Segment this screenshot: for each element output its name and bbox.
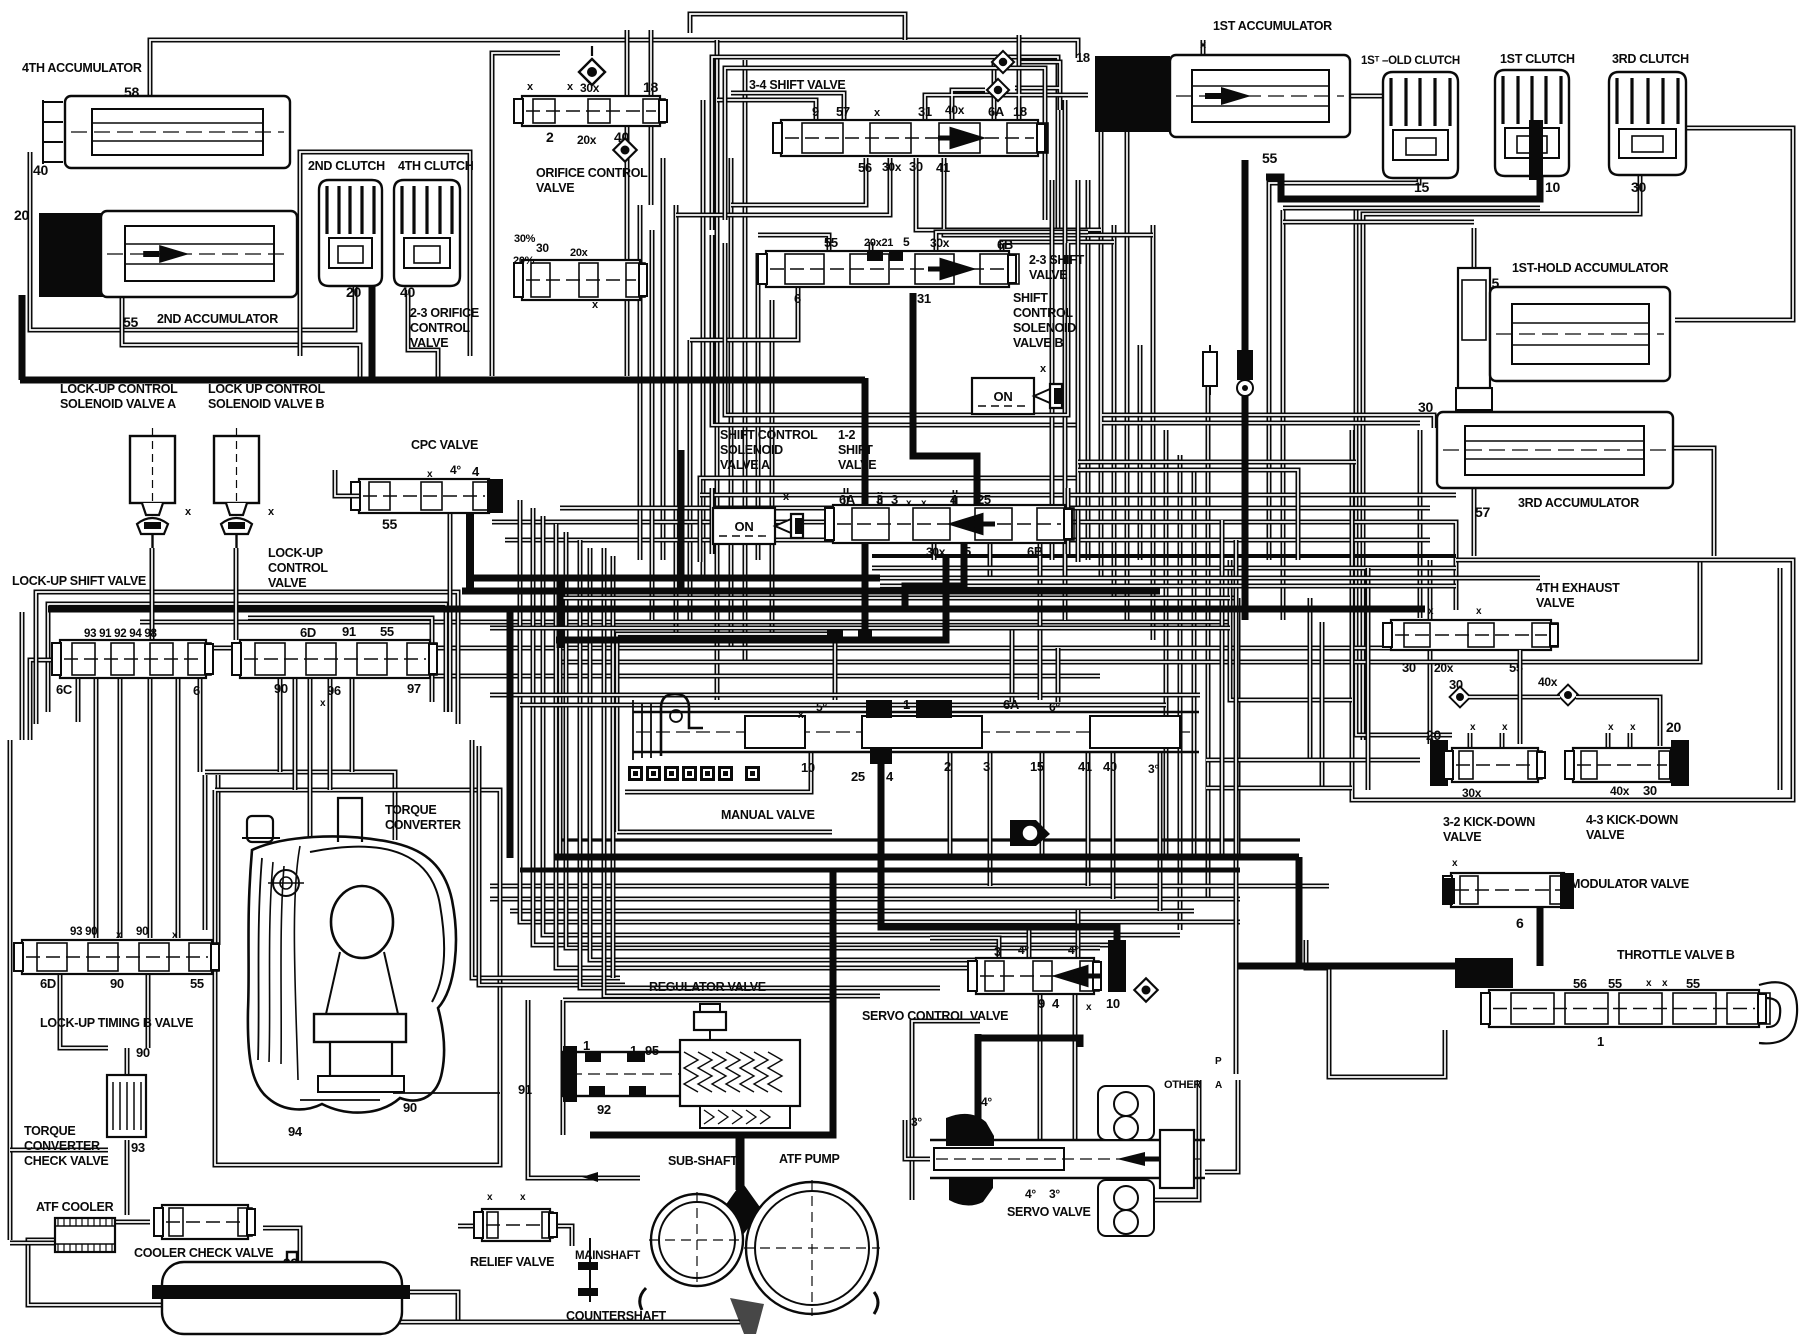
- svg-text:3: 3: [876, 492, 883, 507]
- clutch 4TH CLUTCH: [394, 180, 460, 286]
- wire staircase 4b: [580, 540, 940, 988]
- svg-text:3RD CLUTCH: 3RD CLUTCH: [1612, 52, 1689, 66]
- solenoid ON box B: [972, 378, 1062, 414]
- wire staircase 3: [566, 532, 1100, 948]
- clutch 1ST-HOLD CLUTCH: [1383, 72, 1458, 178]
- wire manual 3 down: [988, 752, 993, 886]
- svg-text:15: 15: [1414, 179, 1429, 195]
- black piston 1st accumulator: [1095, 56, 1170, 132]
- wire cpc 55 drop: [448, 514, 453, 712]
- black bumps on 2-3 spool: [867, 252, 883, 261]
- wire 2-3 valve box: [712, 235, 1078, 425]
- wire thick elbow x560: [557, 580, 564, 648]
- wire staircase 2: [543, 516, 1180, 935]
- svg-text:55: 55: [1608, 976, 1622, 991]
- wire servo to throttle box link: [1205, 1080, 1238, 1172]
- wire accumulator outer box: [30, 152, 355, 330]
- wire right riser m: [1220, 520, 1225, 860]
- wire thick band y870: [520, 868, 1240, 873]
- svg-text:3°: 3°: [1148, 762, 1159, 776]
- clutch 1ST CLUTCH: [1495, 70, 1569, 176]
- wire 2-3 top stubs: [758, 232, 1114, 251]
- wire mid riser k: [1050, 180, 1055, 560]
- wire orifice-valve left riser: [492, 53, 560, 376]
- wire 3rd accum right loop: [1673, 448, 1714, 556]
- wire 1st-hold accum drop: [1472, 410, 1477, 556]
- wire manual 6A up: [1010, 628, 1015, 702]
- svg-text:SHIFT: SHIFT: [838, 443, 873, 457]
- svg-text:93 90: 93 90: [70, 926, 97, 938]
- wire lockup control drops: [280, 678, 352, 838]
- sub-shaft arrow: [582, 1172, 598, 1182]
- svg-text:2ND ACCUMULATOR: 2ND ACCUMULATOR: [157, 312, 278, 326]
- svg-text:CONVERTER: CONVERTER: [24, 1139, 100, 1153]
- wire check40x link: [1576, 697, 1660, 746]
- wire right long riser 2: [1178, 455, 1183, 930]
- wire thick manual port4 drop: [881, 752, 1117, 962]
- wire solenoid A stem: [150, 548, 155, 640]
- wire band y578 right: [880, 576, 1540, 581]
- wire lockup control inner box: [248, 618, 432, 702]
- wire staircase 5: [611, 556, 616, 978]
- svg-text:6D: 6D: [40, 976, 56, 991]
- svg-text:55: 55: [1686, 976, 1700, 991]
- wire manual valve inner box: [617, 634, 832, 832]
- throttle hook right: [1759, 982, 1797, 1043]
- svg-text:CPC VALVE: CPC VALVE: [411, 438, 478, 452]
- wire manual valve outer box: [560, 598, 1238, 858]
- wire thick left piston drop: [19, 295, 26, 380]
- svg-text:4: 4: [1052, 996, 1060, 1011]
- wire thick 2-3 to 1-2: [913, 293, 977, 512]
- wire band y705: [520, 703, 1166, 708]
- svg-text:15: 15: [1030, 759, 1044, 774]
- svg-text:30: 30: [909, 159, 923, 174]
- svg-text:VALVE: VALVE: [410, 336, 448, 350]
- wire manual 6deg up: [1056, 648, 1061, 702]
- svg-text:VALVE: VALVE: [1029, 268, 1067, 282]
- check ball under orifice valve: [613, 138, 636, 161]
- svg-text:SERVO CONTROL VALVE: SERVO CONTROL VALVE: [862, 1009, 1008, 1023]
- wire thick servo 4deg drop: [975, 1034, 982, 1120]
- svg-text:CONTROL: CONTROL: [410, 321, 470, 335]
- wire check30 link: [1468, 695, 1560, 700]
- svg-text:20x21: 20x21: [864, 237, 893, 249]
- wire thick 1st clutch 10 elbow: [1266, 176, 1540, 199]
- black right end CPC: [487, 479, 503, 513]
- svg-text:SOLENOID: SOLENOID: [720, 443, 783, 457]
- check balls top right: [992, 51, 1014, 73]
- wire band below manual y899: [490, 897, 1240, 902]
- svg-text:REGULATOR VALVE: REGULATOR VALVE: [649, 980, 766, 994]
- svg-text:30x: 30x: [930, 236, 950, 250]
- wire right riser n: [1234, 540, 1239, 1074]
- svg-text:1: 1: [630, 1043, 637, 1058]
- svg-text:55: 55: [190, 976, 204, 991]
- wire thick band y591: [462, 588, 1160, 595]
- black end 3-2 kick-down: [1430, 740, 1448, 786]
- wire band below manual y886: [490, 884, 1329, 889]
- wire inner box 2-3: [725, 243, 1068, 415]
- wire thick modulator 6 drop: [1537, 905, 1544, 966]
- wire inner box 3-4: [725, 68, 1045, 220]
- wire solenoid B stem: [234, 548, 239, 640]
- svg-text:5: 5: [903, 235, 910, 249]
- svg-text:6A: 6A: [988, 104, 1005, 119]
- svg-text:6D: 6D: [300, 625, 316, 640]
- wire right bundle 4: [1125, 100, 1130, 620]
- valve MODULATOR body: [1443, 873, 1571, 907]
- svg-text:CONTROL: CONTROL: [1013, 306, 1073, 320]
- svg-text:x: x: [1608, 722, 1614, 733]
- svg-text:30%: 30%: [514, 233, 536, 245]
- wire kickdown top stubs: [1470, 733, 1630, 748]
- svg-text:56: 56: [1573, 976, 1587, 991]
- wire cpc left stub: [335, 470, 359, 496]
- wire mid riser j: [1038, 543, 1043, 700]
- svg-text:57: 57: [836, 104, 850, 119]
- svg-text:SOLENOID VALVE A: SOLENOID VALVE A: [60, 397, 176, 411]
- wire staircase 2b: [533, 508, 1120, 945]
- svg-text:x: x: [320, 698, 326, 709]
- wire manual 2 down: [948, 752, 953, 858]
- svg-text:LOCK UP CONTROL: LOCK UP CONTROL: [208, 382, 325, 396]
- svg-text:3: 3: [891, 492, 898, 507]
- wire sub-shaft line: [528, 1000, 640, 1178]
- wire tc bypass 2: [479, 746, 625, 985]
- wire 3-4 bottom stubs: [676, 158, 1153, 235]
- valve 1st-hold accumulator narrow part: [1456, 268, 1492, 410]
- wire thick main band y380: [20, 377, 865, 384]
- valve LOCK-UP CONTROL body: [232, 640, 437, 678]
- svg-text:3: 3: [983, 759, 990, 774]
- svg-text:x: x: [798, 710, 804, 721]
- wire left bottom border: [10, 1241, 55, 1246]
- junction square b: [858, 626, 872, 638]
- wire thick band y580: [466, 575, 880, 582]
- svg-text:x: x: [427, 469, 433, 480]
- wire band y495: [700, 493, 1456, 498]
- wire center riser g: [743, 60, 748, 660]
- svg-text:4°: 4°: [1025, 1187, 1036, 1201]
- wire right long riser 1: [1164, 430, 1169, 860]
- svg-text:93 91 92 94 98: 93 91 92 94 98: [84, 628, 157, 640]
- svg-text:LOCK-UP SHIFT VALVE: LOCK-UP SHIFT VALVE: [12, 574, 146, 588]
- svg-text:31: 31: [918, 104, 932, 119]
- wire manual 3deg down: [1158, 752, 1163, 911]
- wire tank right link: [401, 1292, 458, 1322]
- valve 4TH ACCUMULATOR body: [43, 96, 290, 168]
- svg-text:RELIEF VALVE: RELIEF VALVE: [470, 1255, 554, 1269]
- wire 2-3 bottom stub: [690, 287, 798, 340]
- wire cooler check to relief: [263, 1228, 300, 1262]
- check ball 30: [1450, 687, 1471, 708]
- svg-text:25: 25: [977, 492, 991, 507]
- black slab servo control: [1108, 940, 1126, 992]
- svg-text:20: 20: [14, 207, 29, 223]
- solenoid LOCK-UP A: [130, 428, 175, 548]
- svg-text:1ST ACCUMULATOR: 1ST ACCUMULATOR: [1213, 19, 1332, 33]
- wire right long riser 4: [1206, 352, 1211, 900]
- wire band y662 long: [560, 560, 1700, 662]
- wire right lines y222: [1283, 220, 1474, 225]
- valve LOCK-UP SHIFT body: [52, 640, 213, 678]
- svg-text:30: 30: [1643, 783, 1657, 798]
- svg-text:41: 41: [936, 160, 950, 175]
- wire 1st-hold accumulator 15 riser: [1472, 228, 1477, 268]
- svg-text:OTHER: OTHER: [1164, 1079, 1201, 1091]
- wire right long riser 3: [1192, 470, 1197, 860]
- wire left edge riser y612: [20, 612, 25, 740]
- valve ORIFICE CONTROL upper body: [514, 96, 667, 126]
- wire 1st-hold clutch 15 run: [1269, 178, 1419, 560]
- wire center riser i: [770, 300, 775, 640]
- valve REGULATOR body: [563, 1004, 800, 1128]
- wire throttle enclosure: [1306, 940, 1445, 1077]
- svg-text:VALVE: VALVE: [1443, 830, 1481, 844]
- wire 3-4 top stubs: [717, 35, 1088, 120]
- svg-text:2ND CLUTCH: 2ND CLUTCH: [308, 159, 385, 173]
- svg-text:4: 4: [472, 464, 480, 479]
- svg-text:30: 30: [536, 241, 549, 255]
- wire thick elbow 865-946: [862, 556, 946, 640]
- check ball servo: [1134, 978, 1157, 1001]
- wire thick staircase: [507, 612, 514, 858]
- svg-text:97: 97: [407, 681, 421, 696]
- svg-text:6B: 6B: [997, 237, 1013, 252]
- wire regulator feed down: [738, 1137, 743, 1185]
- wire right mid y760: [1206, 758, 1420, 763]
- valve 3-4 SHIFT body: [773, 120, 1048, 156]
- svg-text:5°: 5°: [816, 700, 827, 714]
- wire left lower branch: [10, 1148, 108, 1153]
- black piston block 2nd accumulator: [39, 213, 103, 297]
- wire 1-2 bottom stubs: [934, 543, 990, 578]
- gear position boxes: [628, 766, 760, 781]
- valve 3-2 KICK-DOWN body: [1444, 748, 1545, 782]
- pump joint diamond: [722, 1182, 762, 1236]
- wire band y556: [872, 554, 1456, 558]
- valve 3RD ACCUMULATOR body: [1437, 412, 1673, 488]
- svg-text:55: 55: [1262, 150, 1277, 166]
- wire mid riser o: [1076, 180, 1081, 560]
- svg-text:x: x: [520, 1192, 526, 1203]
- ATF COOLER body: [55, 1218, 115, 1252]
- wire lockup shift port6 drop: [198, 678, 203, 772]
- svg-text:3RD ACCUMULATOR: 3RD ACCUMULATOR: [1518, 496, 1639, 510]
- wire 3rd clutch 30 run: [1363, 176, 1640, 740]
- wire center riser b: [674, 205, 679, 640]
- black connector throttle: [1455, 958, 1513, 988]
- wire under clutches y208: [1283, 206, 1540, 211]
- wire cooler to tank: [28, 1240, 162, 1305]
- svg-text:90: 90: [136, 1045, 150, 1060]
- wire 3rd accumulator 30 run b: [1102, 421, 1420, 426]
- wire band y648 long: [140, 646, 1391, 651]
- svg-text:40: 40: [1103, 759, 1117, 774]
- svg-text:SUB-SHAFT: SUB-SHAFT: [668, 1154, 738, 1168]
- wire 4th exhaust left riser: [1418, 430, 1423, 618]
- svg-text:4-3 KICK-DOWN: 4-3 KICK-DOWN: [1586, 813, 1678, 827]
- wire center riser e: [715, 40, 720, 700]
- svg-text:92: 92: [597, 1102, 611, 1117]
- wire band y522: [492, 522, 1456, 610]
- svg-text:VALVE A: VALVE A: [720, 458, 770, 472]
- svg-text:THROTTLE VALVE B: THROTTLE VALVE B: [1617, 948, 1735, 962]
- svg-text:VALVE: VALVE: [838, 458, 876, 472]
- wire mid riser l: [1063, 100, 1068, 620]
- svg-text:4°: 4°: [981, 1095, 992, 1109]
- svg-text:2: 2: [944, 759, 951, 774]
- wire thick cpc to band: [466, 510, 474, 591]
- wire band y540: [505, 538, 1430, 543]
- wire relief right stub: [550, 1226, 572, 1246]
- svg-text:58: 58: [124, 84, 139, 100]
- svg-text:4TH ACCUMULATOR: 4TH ACCUMULATOR: [22, 61, 142, 75]
- svg-text:MODULATOR VALVE: MODULATOR VALVE: [1570, 877, 1689, 891]
- valve CPC body: [351, 479, 496, 513]
- black end 4-3 kick-down: [1671, 740, 1689, 786]
- wire center riser f: [729, 158, 734, 648]
- svg-text:30x: 30x: [926, 545, 946, 559]
- svg-text:P: P: [1215, 1056, 1222, 1067]
- other clutch lower: [1098, 1180, 1154, 1236]
- wire lockup shift left: [30, 660, 60, 740]
- wire bottom countershaft line: [300, 1320, 740, 1325]
- svg-text:3: 3: [994, 944, 1001, 959]
- wire servo left stub: [905, 1120, 930, 1159]
- tank body: [152, 1252, 410, 1334]
- wire thick band y609: [48, 606, 1425, 613]
- valve LOCK-UP TIMING B body: [14, 940, 219, 974]
- wire right bundle 3: [1112, 225, 1117, 600]
- wire to kick-down pair: [1356, 206, 1452, 735]
- wire timing valve left drop: [60, 974, 108, 1048]
- svg-text:90: 90: [110, 976, 124, 991]
- wire center riser h: [756, 253, 761, 560]
- svg-text:COOLER CHECK VALVE: COOLER CHECK VALVE: [134, 1246, 273, 1260]
- svg-text:30: 30: [1418, 399, 1433, 415]
- wire 4th clutch 40 down: [408, 290, 438, 378]
- svg-text:4TH EXHAUST: 4TH EXHAUST: [1536, 581, 1620, 595]
- svg-text:MAINSHAFT: MAINSHAFT: [575, 1250, 640, 1262]
- svg-text:4: 4: [950, 492, 958, 507]
- svg-text:6°: 6°: [1049, 700, 1060, 714]
- clutch 2ND CLUTCH: [319, 180, 382, 286]
- wire regulator box top: [563, 1000, 830, 1135]
- valve SERVO CONTROL body: [968, 958, 1101, 994]
- valve RELIEF body: [474, 1209, 557, 1241]
- svg-text:COUNTERSHAFT: COUNTERSHAFT: [566, 1309, 667, 1323]
- svg-text:6C: 6C: [56, 682, 73, 697]
- svg-text:1: 1: [903, 697, 910, 712]
- valve 1-2 SHIFT body: [825, 505, 1074, 543]
- valve MANUAL body: [633, 694, 1199, 764]
- svg-text:6B: 6B: [1027, 544, 1043, 559]
- svg-text:ON: ON: [994, 389, 1013, 404]
- pump hatch: [730, 1298, 764, 1334]
- wire center riser d: [701, 100, 706, 580]
- svg-text:55: 55: [824, 235, 838, 250]
- wire outer right riser of orifice box: [649, 30, 654, 205]
- svg-text:30x: 30x: [882, 160, 902, 174]
- wire 3rd clutch right loop: [1675, 128, 1793, 320]
- svg-text:96: 96: [327, 683, 341, 698]
- svg-text:2: 2: [546, 129, 554, 145]
- svg-text:SHIFT: SHIFT: [1013, 291, 1048, 305]
- torque converter body: [242, 798, 500, 1113]
- check ball near manual valve: [1010, 820, 1050, 846]
- wire thick band y638: [556, 637, 947, 644]
- solenoid ON box A: [713, 508, 803, 544]
- svg-text:CHECK VALVE: CHECK VALVE: [24, 1154, 108, 1168]
- wire band y508: [560, 506, 1430, 511]
- clutch 3RD CLUTCH: [1609, 72, 1686, 175]
- wire band y676: [300, 674, 1100, 679]
- wire outer lockup box: [36, 592, 458, 724]
- svg-text:x: x: [1470, 722, 1476, 733]
- wire staircase 3b: [556, 524, 1060, 968]
- check ball above orifice valve: [579, 59, 605, 85]
- wire thick regulator enclosure: [590, 870, 833, 1135]
- svg-text:6A: 6A: [839, 492, 856, 507]
- svg-text:6: 6: [794, 291, 801, 306]
- wire right bundle 5: [1138, 345, 1143, 560]
- wire right Lpipe 2: [1310, 598, 1420, 760]
- svg-text:x: x: [1662, 978, 1668, 989]
- svg-text:20%: 20%: [513, 255, 535, 267]
- svg-text:93: 93: [131, 1140, 145, 1155]
- wire right mid y788: [1206, 786, 1352, 791]
- svg-text:ATF COOLER: ATF COOLER: [36, 1200, 114, 1214]
- wire top small jog: [690, 14, 905, 40]
- svg-text:20: 20: [1426, 727, 1441, 743]
- svg-text:TORQUE: TORQUE: [385, 803, 436, 817]
- valve 4TH EXHAUST body: [1383, 620, 1558, 650]
- svg-text:1ST CLUTCH: 1ST CLUTCH: [1500, 52, 1575, 66]
- svg-text:91: 91: [342, 624, 356, 639]
- wire servo box right: [1120, 1080, 1199, 1200]
- wire torque converter box: [215, 790, 500, 1165]
- svg-text:20x: 20x: [570, 247, 589, 259]
- svg-text:x: x: [1476, 606, 1482, 617]
- wire band y628: [490, 626, 1230, 631]
- svg-text:4°: 4°: [1018, 943, 1029, 957]
- wire servo box: [912, 1021, 980, 1200]
- wire cooler drop: [125, 1140, 130, 1215]
- svg-text:90: 90: [136, 926, 148, 938]
- valve SERVO body: [930, 1114, 1205, 1206]
- junction square a: [827, 626, 843, 638]
- svg-text:3°: 3°: [1049, 1187, 1060, 1201]
- wire band y695: [490, 693, 1200, 698]
- svg-text:VALVE: VALVE: [1586, 828, 1624, 842]
- svg-text:CONVERTER: CONVERTER: [385, 818, 461, 832]
- wire kick-down riser: [1428, 560, 1433, 744]
- svg-text:x: x: [921, 498, 927, 509]
- svg-text:ON: ON: [735, 519, 754, 534]
- wire 1-2 valve box: [700, 478, 1078, 562]
- svg-text:SOLENOID: SOLENOID: [1013, 321, 1076, 335]
- pump circle small: [649, 1192, 745, 1288]
- wire thick band y857: [555, 854, 1299, 861]
- wire manual 40 down: [1111, 752, 1116, 899]
- svg-text:TORQUE: TORQUE: [24, 1124, 75, 1138]
- wire band y598: [620, 596, 1230, 601]
- wire thick servo elbow: [978, 1038, 1080, 1047]
- wire servo control top stubs: [930, 910, 1078, 958]
- svg-text:30: 30: [1402, 660, 1416, 675]
